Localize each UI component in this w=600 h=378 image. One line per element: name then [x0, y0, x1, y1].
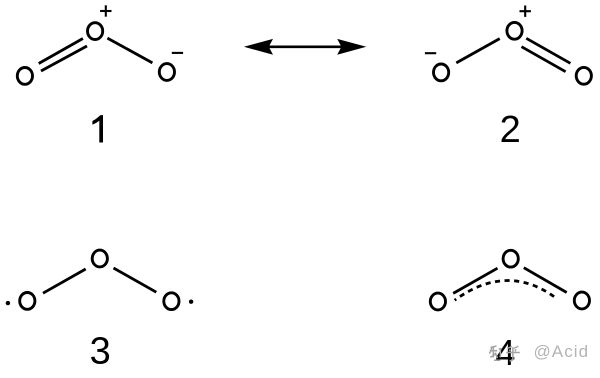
structure 4: oxygen atom O left — [430, 293, 445, 310]
structure 3: single bond center O to right O — [114, 268, 157, 292]
structure 4: oxygen atom O right — [574, 292, 589, 309]
structure 2: minus charge on left O — [425, 52, 436, 54]
structure 2: oxygen atom O center — [507, 22, 522, 39]
structure 4: delocalized dashed arc — [455, 281, 558, 301]
structure 3: radical dot left — [6, 301, 10, 305]
structure 1: single bond center O to right O — [107, 38, 152, 63]
structure 2: oxygen atom O left — [434, 64, 449, 81]
structure 2: plus charge on center O — [520, 6, 531, 17]
structure 1: plus charge on center O — [100, 5, 111, 16]
structure 1: oxygen atom O right — [159, 64, 174, 81]
structure 4: bond left O to center O — [453, 268, 497, 293]
structure 2: oxygen atom O right — [576, 67, 591, 84]
structure 3: radical dot right — [189, 300, 193, 304]
watermark: zhihu logo text 知 — [489, 346, 502, 360]
watermark: zhihu logo text 乎 — [506, 346, 520, 361]
structure 4: bond center O to right O — [524, 268, 567, 293]
resonance arrow left head — [244, 39, 273, 55]
structure 1: double bond lower line — [41, 46, 87, 71]
structure 3: oxygen atom O center — [92, 250, 107, 267]
structure 4: oxygen atom O center — [503, 250, 518, 267]
structure 2: double bond lower line — [522, 47, 566, 72]
svg-text:3: 3 — [90, 331, 111, 373]
svg-text:2: 2 — [500, 109, 521, 151]
structure 2: single bond left O to center O — [456, 39, 499, 63]
structure 3: oxygen atom O right — [164, 293, 179, 310]
svg-text:@Acid: @Acid — [534, 342, 590, 361]
structure 1: minus charge on right O — [172, 52, 183, 54]
structure 1: oxygen atom O center — [88, 23, 103, 40]
structure 1: double bond upper line — [39, 39, 83, 64]
structure 3: oxygen atom O left — [20, 293, 35, 310]
structure 1: label 1 — [92, 115, 103, 142]
structure 3: single bond left O to center O — [43, 269, 86, 293]
structure 2: double bond upper line — [526, 38, 570, 63]
resonance arrow shaft — [266, 45, 344, 48]
structure 1: oxygen atom O left — [17, 68, 32, 85]
resonance arrow right head — [337, 39, 366, 55]
